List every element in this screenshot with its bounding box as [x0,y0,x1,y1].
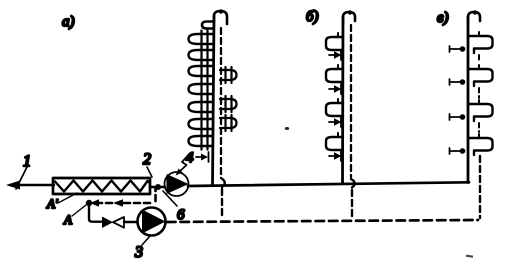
riser 3 air hook [468,10,480,23]
svg-text:2: 2 [143,151,151,168]
riser 2 return drop dashed [351,190,353,218]
riser 2 radiator 3 [326,99,343,116]
pump 3 (circulation pump circle with filled triangle) [138,208,166,236]
riser 2 radiator 4 [326,133,343,150]
mixing line dashed with two left arrows [90,189,156,207]
riser 3 supply pipe [467,17,470,183]
label а) [62,14,75,30]
riser 1 radiator L6 [189,116,213,133]
label 2 with leader [143,151,152,177]
riser 3 radiator at y138 [468,134,493,155]
riser 1 radiator L3 [189,63,213,80]
riser 1 air hook [202,9,227,28]
riser 2 return crossing jog [351,179,355,188]
riser 2 radiator 2 arrow [329,84,342,94]
riser 2 radiator 4 arrow [329,151,342,161]
wire A down-elbow to valve [89,206,101,222]
label 3 with leader [134,236,150,261]
supply main (solid) [188,182,469,186]
riser 3 inter-loop stubs [478,55,480,132]
riser 1 bottom flow arrow [196,152,209,162]
riser 1 return crossing jog [221,178,225,187]
label A with leader [63,205,86,227]
riser 2 radiator 2 [326,65,343,82]
label б) [306,9,319,25]
riser 1 return drop dashed [221,189,223,219]
riser 3 radiator at y36 [468,32,493,53]
svg-text:3: 3 [134,244,143,261]
riser 3 radiator tap at y117 [450,114,466,120]
scan speck [285,127,473,258]
riser 1 return pipe dashed [220,28,222,177]
svg-text:б): б) [306,9,319,25]
riser 1 radiator L5 [189,99,213,116]
riser 2 radiator 1 [326,33,343,50]
riser 3 radiator tap at y151 [450,148,466,154]
riser 1 radiator R3 [220,115,237,131]
riser 1 radiator L1 [189,31,213,48]
svg-text:в): в) [437,10,449,26]
riser 1 radiator L4 [189,81,213,98]
riser 1 radiator R1 [220,67,237,83]
wire heat exchanger to pump 4 with junction dot [150,184,165,190]
riser 2 radiator 1 arrow [329,50,342,60]
riser 3 radiator tap at y49 [450,46,466,52]
svg-text:а): а) [62,14,75,30]
riser 3 radiator at y69 [468,65,493,86]
riser 2 radiator 3 arrow [329,117,342,127]
heat exchanger 2 (rectangle) [53,178,150,194]
riser 1 radiator L7 [189,133,213,150]
label 4 with zigzag arrow leader [176,150,195,176]
valve (bowtie, left half filled) [102,217,137,229]
label A' with leader [46,193,77,211]
riser 1 radiator L2 [189,47,213,64]
riser 2 air hook [343,10,355,23]
inlet arrow line (net 1) [6,181,54,190]
label 1 with leader [16,153,31,189]
label 6 with leader [163,191,185,223]
riser 2 supply pipe [341,17,344,184]
riser 1 radiator R2 [220,96,237,112]
riser 1 supply pipe [213,16,215,185]
return main (dashed) [167,220,478,222]
riser 3 radiator at y104 [468,100,493,121]
label в) [437,10,449,26]
pump 4 (mixing pump circle with filled triangle) [165,172,189,196]
riser 2 return pipe dashed [350,25,352,177]
riser 3 radiator tap at y82 [450,79,466,85]
svg-text:А: А [63,212,72,227]
svg-text:А': А' [46,196,58,211]
riser 3 return drop dashed [479,156,481,218]
heat exchanger zigzag [55,181,149,192]
point A junction dot [86,200,92,206]
